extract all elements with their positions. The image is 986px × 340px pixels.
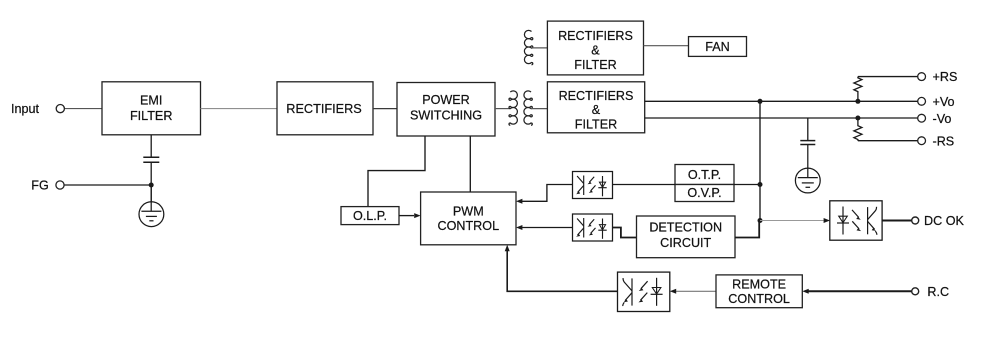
junction dot bus/OTP wire	[758, 182, 763, 187]
wire input to EMI filter	[65, 108, 102, 110]
wire FG	[64, 184, 151, 186]
block REMOTE CONTROL	[716, 275, 802, 308]
svg-text:EMI: EMI	[140, 94, 162, 108]
svg-text:RECTIFIERS: RECTIFIERS	[558, 29, 633, 43]
wire detection circuit to bus	[735, 221, 759, 238]
wire -RS	[858, 140, 918, 142]
terminal -RS	[918, 137, 926, 145]
block FAN	[689, 37, 747, 57]
transformer T1 primary winding	[509, 91, 517, 125]
wire power switching to O.L.P.	[368, 136, 425, 207]
wire opto1 to OTP/OVP to bus	[613, 184, 676, 186]
block RECTIFIERS &amp; FILTER (fan)	[547, 21, 643, 75]
svg-text:&: &	[592, 103, 601, 117]
wire fan winding to upper rectifiers filter	[532, 47, 548, 49]
transformer T1 secondary winding	[524, 91, 532, 125]
optocoupler U2 (detection feedback)	[573, 214, 613, 241]
resistor -RS sense	[854, 118, 862, 141]
wire -Vo rail	[645, 117, 918, 119]
junction dot -RS resistor on -Vo	[855, 116, 860, 121]
block O.T.P.	[675, 165, 734, 185]
terminal Input	[56, 105, 64, 113]
terminal -Vo	[918, 114, 926, 122]
wire R.C terminal to remote control with arrow	[808, 290, 912, 292]
svg-text:O.L.P.: O.L.P.	[353, 209, 387, 223]
svg-text:SWITCHING: SWITCHING	[410, 108, 482, 122]
svg-text:+Vo: +Vo	[933, 95, 955, 109]
block RECTIFIERS &amp; FILTER (main output)	[547, 82, 644, 133]
optocoupler U1 (OTP/OVP feedback)	[573, 172, 613, 199]
junction dot bus/DC OK wire	[758, 218, 763, 223]
terminal FG	[56, 181, 64, 189]
wire remote control to opto3 with arrow	[676, 290, 716, 292]
svg-text:RECTIFIERS: RECTIFIERS	[286, 102, 361, 116]
wire +Vo rail	[645, 100, 918, 102]
svg-text:&: &	[591, 43, 600, 57]
block EMI FILTER	[102, 82, 201, 135]
block O.L.P.	[341, 207, 399, 225]
svg-text:CONTROL: CONTROL	[438, 219, 500, 233]
svg-text:DC OK: DC OK	[924, 214, 964, 228]
wire power switching to PWM control	[469, 136, 471, 192]
svg-text:R.C: R.C	[927, 285, 949, 299]
block RECTIFIERS	[277, 82, 373, 135]
earth ground (output)	[795, 145, 820, 193]
wire +RS	[858, 76, 918, 78]
wire vertical bus from +Vo down	[759, 101, 761, 220]
svg-text:FAN: FAN	[705, 40, 730, 54]
svg-text:PWM: PWM	[453, 204, 484, 218]
junction dot FG	[149, 183, 154, 188]
svg-text:O.V.P.: O.V.P.	[687, 186, 721, 200]
capacitor C2 output	[800, 118, 815, 145]
wire EMI to rectifiers	[201, 108, 278, 110]
svg-text:-Vo: -Vo	[933, 112, 952, 126]
svg-text:+RS: +RS	[933, 70, 958, 84]
svg-text:REMOTE: REMOTE	[732, 277, 786, 291]
wire opto2 to PWM with arrow	[522, 227, 573, 229]
resistor +RS sense	[854, 77, 862, 102]
svg-text:FILTER: FILTER	[574, 58, 616, 72]
svg-text:Input: Input	[11, 102, 40, 116]
wire opto2 to detection circuit	[613, 228, 637, 238]
svg-text:FG: FG	[31, 179, 49, 193]
wire transformer secondary to rectifiers filter	[531, 108, 548, 110]
capacitor C1 under EMI filter	[143, 135, 159, 202]
block DETECTION CIRCUIT	[637, 216, 736, 258]
wire bus to DC OK opto with arrow	[760, 220, 824, 222]
wire opto1 to PWM with arrow	[522, 185, 573, 202]
terminal DC OK	[912, 217, 919, 224]
optocoupler U4 (DC OK)	[830, 201, 882, 240]
wire PWM to remote opto with arrow into PWM bottom	[507, 250, 617, 291]
svg-text:O.T.P.: O.T.P.	[688, 168, 721, 182]
wire rectifiers to power switching	[373, 108, 397, 110]
block POWER SWITCHING	[397, 83, 495, 137]
optocoupler U3 (remote control)	[618, 272, 670, 311]
svg-text:DETECTION: DETECTION	[649, 221, 722, 235]
svg-text:POWER: POWER	[422, 93, 470, 107]
svg-text:-RS: -RS	[933, 134, 955, 148]
wire to FAN	[644, 45, 689, 47]
svg-text:RECTIFIERS: RECTIFIERS	[559, 89, 634, 103]
earth ground (input)	[139, 185, 164, 227]
svg-text:FILTER: FILTER	[575, 118, 617, 132]
svg-text:CIRCUIT: CIRCUIT	[660, 236, 711, 250]
terminal R.C	[912, 288, 919, 295]
wire power switching to transformer primary	[495, 108, 510, 110]
wire O.L.P. to PWM with arrow	[399, 215, 414, 217]
svg-text:CONTROL: CONTROL	[728, 292, 790, 306]
block PWM CONTROL	[421, 192, 516, 245]
junction dot +Vo/bus	[758, 99, 763, 104]
block O.V.P.	[675, 185, 734, 202]
terminal +RS	[918, 73, 926, 81]
junction dot +RS resistor on +Vo	[855, 99, 860, 104]
svg-text:FILTER: FILTER	[130, 109, 172, 123]
transformer fan winding	[524, 30, 532, 64]
wire DC OK opto to terminal	[882, 220, 912, 222]
terminal +Vo	[918, 97, 926, 105]
